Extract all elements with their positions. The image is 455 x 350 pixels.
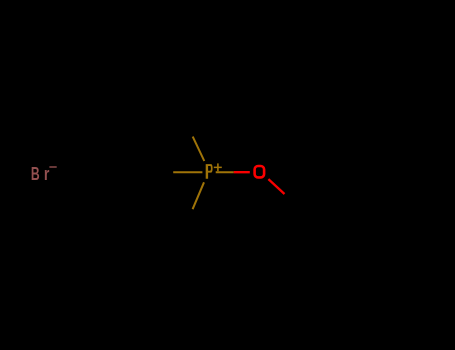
- svg-text:r: r: [44, 164, 50, 184]
- svg-text:B: B: [31, 164, 40, 184]
